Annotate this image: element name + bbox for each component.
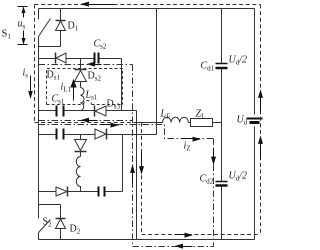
current is arrow bbox=[28, 76, 33, 100]
capacitor Cs4 bbox=[99, 187, 105, 197]
svg-text:Cd2: Cd2 bbox=[200, 174, 214, 186]
arrow left on upper dash-dot bbox=[87, 62, 102, 67]
loop dashed mid vertical bbox=[141, 123, 143, 235]
arrow right on dash-dot y124 bbox=[100, 123, 120, 128]
svg-text:ZL: ZL bbox=[196, 109, 206, 121]
label LF bbox=[160, 109, 171, 121]
arrow left on dash-dot y119 bbox=[81, 118, 98, 123]
arrow up on dashed right upper bbox=[258, 89, 263, 112]
capacitor Cs1 bbox=[57, 106, 64, 117]
svg-text:Ls1: Ls1 bbox=[85, 90, 98, 102]
load ZL box bbox=[191, 119, 213, 127]
arrow left on dash-dot bottom bbox=[175, 244, 193, 249]
svg-text:iL1: iL1 bbox=[61, 82, 72, 94]
capacitor Cd2 bbox=[216, 182, 228, 186]
capacitor Cs2 bbox=[95, 53, 99, 64]
label Cd1 bbox=[201, 61, 215, 73]
arrow down on dash-dot right vertical bbox=[211, 149, 216, 166]
loop dash-dot upper top bbox=[39, 64, 133, 66]
diode Ds2 bbox=[75, 59, 87, 88]
loop dash-dot output horizontal bbox=[39, 125, 214, 139]
wire right rail lower bbox=[254, 127, 256, 240]
wire S2 cell top bbox=[39, 204, 61, 206]
arrow up on dash-dot left vertical bbox=[130, 164, 135, 183]
diode Ds6 bbox=[56, 187, 68, 197]
label Cs1 bbox=[52, 94, 65, 106]
label S1 bbox=[2, 29, 12, 41]
loop dashed bottom bbox=[142, 234, 261, 236]
label D2 bbox=[70, 224, 81, 236]
label us bbox=[18, 19, 26, 31]
loop dashed left side bbox=[34, 5, 36, 123]
svg-text:Ds1: Ds1 bbox=[47, 70, 61, 82]
wire output node step bbox=[123, 134, 157, 136]
diode Ds5 vertical bbox=[75, 135, 87, 157]
svg-text:Cs1: Cs1 bbox=[52, 94, 65, 106]
label Ds1 bbox=[47, 70, 61, 82]
inductor Ls1 bbox=[81, 88, 85, 111]
arrow left on dashed top bbox=[80, 2, 115, 7]
svg-text:Cd1: Cd1 bbox=[201, 61, 215, 73]
wire junction riser bbox=[136, 111, 138, 240]
wire upper snubber branch bbox=[39, 58, 122, 60]
loop dashed middle horizontal bbox=[35, 122, 142, 124]
wire bottom rail bbox=[39, 239, 255, 241]
svg-text:Ds3: Ds3 bbox=[107, 99, 121, 111]
svg-text:Ud: Ud bbox=[237, 115, 248, 127]
arrow up on dashed right lower bbox=[258, 135, 263, 158]
diode D2 bbox=[56, 205, 66, 240]
svg-text:D2: D2 bbox=[70, 224, 81, 236]
wire top rail bbox=[39, 8, 255, 10]
arrow right on dashed bottom bbox=[175, 233, 194, 238]
loop dashed top bbox=[35, 4, 261, 6]
label Cs2 bbox=[94, 39, 107, 51]
current iL1 arrow bbox=[70, 79, 76, 101]
loop dash-dot upper bottom bbox=[39, 120, 133, 122]
svg-text:Ds2: Ds2 bbox=[88, 71, 102, 83]
wire Cd column bbox=[221, 9, 223, 240]
diode D1 bbox=[56, 9, 66, 47]
svg-text:us: us bbox=[18, 19, 26, 31]
loop dash-dot left vertical bbox=[132, 65, 134, 247]
label Ls1 bbox=[85, 90, 98, 102]
arrow right on dash-dot y138 bbox=[182, 137, 202, 142]
capacitor Cd1 bbox=[216, 64, 228, 69]
wire lower cell top branch bbox=[39, 134, 123, 136]
loop dashed right vertical bbox=[260, 5, 262, 235]
label S2 bbox=[43, 217, 53, 229]
svg-text:is: is bbox=[23, 68, 29, 80]
source Ud battery bbox=[247, 119, 263, 123]
wire lower snubber branch Cs1 Ds3 bbox=[39, 110, 137, 112]
inductor LF bbox=[163, 117, 189, 122]
wire top tap vertical bbox=[156, 9, 158, 135]
svg-text:Ud/2: Ud/2 bbox=[229, 55, 248, 67]
label is bbox=[23, 68, 29, 80]
wire S1 cell bottom bbox=[39, 46, 61, 48]
switch S1 bbox=[39, 9, 51, 47]
loop dash-dot right vertical bbox=[213, 139, 215, 247]
wire Cs2 right drop bbox=[121, 59, 123, 111]
inductor Ls2 bbox=[76, 157, 80, 192]
svg-text:S1: S1 bbox=[2, 29, 12, 41]
svg-text:LF: LF bbox=[160, 109, 171, 121]
label Cd2 bbox=[200, 174, 214, 186]
svg-text:Cs2: Cs2 bbox=[94, 39, 107, 51]
wire lower cell bottom branch bbox=[39, 191, 123, 193]
svg-text:S2: S2 bbox=[43, 217, 53, 229]
svg-text:iZ: iZ bbox=[184, 141, 191, 153]
label iZ bbox=[184, 141, 191, 153]
label Ud/2 lower bbox=[229, 171, 248, 183]
arrow down on dashed mid vertical bbox=[139, 153, 144, 175]
switch S2 bbox=[39, 205, 51, 240]
label D1 bbox=[68, 21, 79, 33]
label iL1 bbox=[61, 82, 72, 94]
diode Ds1 bbox=[56, 53, 67, 64]
capacitor Cs3 bbox=[57, 129, 64, 140]
svg-text:Ud/2: Ud/2 bbox=[229, 171, 248, 183]
wire main output bbox=[137, 122, 222, 124]
label Ud bbox=[237, 115, 248, 127]
label Ud/2 upper bbox=[229, 55, 248, 67]
svg-text:D1: D1 bbox=[68, 21, 79, 33]
wire right rail upper bbox=[254, 9, 256, 115]
wire left rail bbox=[38, 47, 40, 205]
label ZL bbox=[196, 109, 206, 121]
diode Ds3 bbox=[95, 106, 107, 117]
label Ds2 bbox=[88, 71, 102, 83]
label Ds3 bbox=[107, 99, 121, 111]
diode Ds4 bbox=[95, 129, 107, 140]
loop dash-dot bottom bbox=[133, 246, 214, 248]
wire lower cell right edge bbox=[122, 135, 124, 192]
box snubber cell dashed bbox=[47, 69, 123, 105]
voltage us measure arrow bbox=[18, 6, 28, 44]
